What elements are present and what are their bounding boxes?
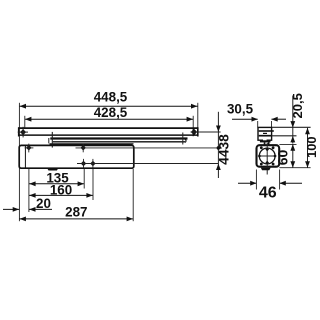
dim line 100 (307, 128, 309, 168)
pinion vertical centerline (266, 143, 268, 175)
extension line 160 right (92, 169, 94, 200)
dot 4 vertical tick (92, 159, 94, 168)
extension line 46 right (279, 170, 281, 190)
arm right end cap (185, 139, 186, 142)
slide rail right end cap (197, 127, 199, 136)
dim 448,5 right arrow (191, 104, 197, 109)
dim 30,5 left tail (232, 118, 258, 120)
slider stub right (268, 142, 270, 144)
dim line 38/44 (217, 112, 219, 178)
extension line 428,5 left (24, 116, 26, 128)
slide rail bottom edge (18, 134, 198, 136)
slider fixing diamond (20, 129, 26, 135)
dim 448,5 left arrow (20, 104, 26, 109)
rail lower line extension right (272, 135, 297, 137)
dot 1 horizontal tick (25, 147, 34, 149)
dim 428,5 right arrow (187, 117, 193, 122)
extension line hole column (28, 169, 30, 212)
dim line 20,5 (292, 96, 294, 144)
rail fixing diamond (191, 129, 197, 135)
pinion dot west (258, 154, 262, 158)
dim line 60 (292, 144, 294, 167)
dim line 160 (29, 194, 93, 196)
fixing hole dot 3 (81, 161, 86, 166)
arm bottom edge (53, 141, 185, 143)
hole row 2 reference line (77, 163, 218, 165)
dim 30,5 right tail (271, 118, 286, 120)
rail section upper inner line (259, 130, 274, 132)
dim 60 bottom arrow (290, 161, 295, 167)
slider block (section) (260, 141, 271, 143)
chain point 38/44 (217, 146, 221, 150)
dim 46 right tail (280, 182, 302, 184)
dim line 135 (29, 183, 84, 185)
svg-text:20: 20 (36, 196, 51, 211)
closer body outline (plan) (19, 145, 134, 168)
dim 135 right arrow (78, 181, 84, 186)
dim 20 left outside arrow (13, 207, 19, 212)
fixing hole dot 2 (81, 145, 86, 150)
body top extension right (279, 143, 296, 145)
closer body outline (section) (257, 145, 280, 167)
dim 428,5 left arrow (25, 117, 31, 122)
slider pin horizontal tick (18, 131, 28, 133)
dim 30,5 left outside arrow (252, 117, 258, 122)
screw dot bottom-left (260, 163, 263, 166)
extension line 30,5 right (271, 121, 273, 127)
extension line 448,5 right (197, 103, 199, 128)
dim 20,5 bottom outside arrow (290, 136, 295, 142)
extension line 135 right (83, 169, 85, 189)
screw dot top-right (272, 146, 275, 149)
dim 20 right outside arrow (29, 207, 35, 212)
svg-text:60: 60 (274, 150, 290, 166)
rail top extension right (272, 126, 311, 128)
dim 60 top arrow (290, 144, 295, 150)
extension line 428,5 right (192, 116, 194, 128)
pinion notch (plan) (47, 168, 59, 171)
dim 46 left outside arrow (250, 181, 256, 186)
dot 1 vertical tick (28, 144, 30, 153)
dim 38 top arrow (216, 126, 221, 132)
dim 160 left arrow (29, 193, 35, 198)
body bottom extension right (279, 167, 310, 169)
hole row 1 reference line (76, 147, 219, 149)
fixing hole dot 4 (90, 161, 95, 166)
dim line 428,5 (25, 118, 193, 120)
dim 20 right tail (29, 208, 52, 210)
dim 44 bottom arrow (216, 164, 221, 170)
arm top edge (50, 137, 187, 139)
dim 46 left tail (238, 182, 256, 184)
dim line 287 (19, 218, 133, 220)
dot 3 vertical tick (83, 159, 85, 168)
dim line 448,5 (19, 105, 197, 107)
rail section bottom slot (263, 138, 267, 140)
svg-text:100: 100 (304, 137, 319, 158)
rail end box left side (192, 128, 194, 136)
slider stub left (264, 142, 266, 144)
body bottom notch (section) (261, 168, 271, 171)
dim 20,5 top outside arrow (290, 121, 295, 127)
dot 2 vertical tick (82, 144, 84, 153)
screw dot bottom-right (272, 163, 275, 166)
dim 46 right outside arrow (279, 181, 285, 186)
screw dot top-left (260, 146, 263, 149)
fixing hole dot 1 (26, 145, 31, 150)
slider pin vertical tick (22, 127, 24, 138)
dim 160 right arrow (86, 193, 92, 198)
dim 287 left arrow (20, 217, 26, 222)
rail section lower inner line (259, 135, 272, 137)
pinion dot east (273, 154, 277, 158)
dim 20 left tail (3, 208, 19, 210)
pinion axis tick (51, 132, 53, 148)
extension line 287 right (132, 169, 134, 221)
extension line left (door axis) (18, 103, 20, 221)
svg-text:448,5: 448,5 (94, 89, 128, 104)
pinion dot south (265, 161, 269, 165)
svg-text:30,5: 30,5 (227, 102, 254, 117)
pinion dot north (265, 148, 269, 152)
arm shoe tick 1 (48, 138, 50, 143)
dim 135 left arrow (29, 181, 35, 186)
dim 100 bottom arrow (305, 161, 310, 167)
arm lower edge line (50, 143, 134, 145)
dim 100 top arrow (305, 128, 310, 134)
svg-text:46: 46 (259, 185, 277, 202)
svg-text:4438: 4438 (217, 134, 232, 165)
arm end vertical tick (182, 133, 184, 145)
svg-text:287: 287 (65, 205, 87, 220)
svg-text:160: 160 (50, 183, 72, 198)
dim 30,5 right outside arrow (271, 117, 277, 122)
extension line 46 left (255, 170, 257, 190)
rail cross-section outline (258, 127, 272, 140)
svg-text:428,5: 428,5 (94, 105, 128, 120)
pinion circle (section) (259, 148, 275, 164)
body inner end line (24, 145, 26, 168)
extension line 30,5 left (257, 121, 259, 127)
rail section center detail (263, 132, 267, 134)
slide rail top edge (18, 127, 198, 129)
dim 287 right arrow (127, 217, 133, 222)
svg-text:20,5: 20,5 (290, 93, 305, 118)
slider axis reference line (191, 131, 221, 133)
slide rail left end cap (18, 127, 20, 136)
pinion horizontal centerline (258, 155, 276, 157)
